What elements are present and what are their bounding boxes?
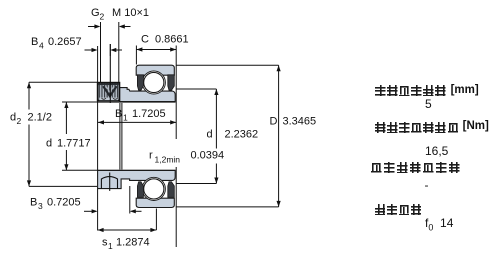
label M 10x1: [112, 7, 149, 19]
raceway gap bottom (white arc around ball): [142, 177, 165, 200]
svg-text:0.8661: 0.8661: [155, 34, 189, 46]
outer ring top section: [136, 65, 174, 75]
locking collar top (sectioned, hatched): [98, 83, 120, 101]
seal right bottom: [168, 182, 175, 198]
dimension B4 arrows: [85, 48, 123, 52]
row 3 value: dash: [425, 178, 429, 192]
svg-text:2.2362: 2.2362: [225, 129, 259, 141]
dimension D line: [176, 65, 281, 207]
extension line B4 right (screw axis above collar): [109, 44, 111, 56]
extension line G2 left: [100, 22, 102, 82]
seal right top: [168, 75, 175, 90]
dimension d2 line: [27, 82, 97, 186]
svg-text:0.0394: 0.0394: [191, 150, 225, 162]
extension line collar left face (long): [97, 46, 99, 231]
extension line right face (long): [175, 46, 177, 248]
label r12min 0.0394: [149, 150, 224, 165]
dimension s1 line: [98, 209, 157, 233]
raceway gap top (white arc around ball): [142, 71, 165, 94]
svg-text:0.7205: 0.7205: [47, 197, 81, 209]
svg-text:2.1/2: 2.1/2: [28, 112, 52, 124]
row 1 title: hex key size [mm]: [375, 85, 479, 103]
svg-text:1: 1: [108, 241, 113, 251]
label G2: [91, 7, 105, 22]
svg-text:2: 2: [100, 12, 105, 22]
row 1 value: 5: [425, 97, 432, 111]
grub screw outline bottom: [101, 173, 117, 191]
row 2 value: 16,5: [425, 144, 448, 158]
outer ring bottom section: [136, 198, 174, 207]
extension line G2 right / M thread: [118, 22, 120, 82]
svg-text:d: d: [46, 138, 52, 150]
grub screw axis top: [109, 44, 111, 103]
row 2 title: recommended tightening torque [Nm]: [375, 122, 489, 140]
label d2 2.1/2: [10, 112, 52, 127]
svg-text:4: 4: [39, 41, 44, 51]
svg-text:3.3465: 3.3465: [283, 116, 317, 128]
dimension d line: [62, 102, 98, 170]
label B4 0.2657: [31, 36, 82, 51]
svg-text:D: D: [270, 116, 278, 128]
svg-text:1: 1: [123, 113, 128, 123]
row 4 title: calculation factor: [375, 204, 423, 222]
row 3 title: suitable rubber seating ring: [371, 162, 462, 180]
svg-text:B: B: [115, 108, 122, 120]
row 4 value: f0 14: [425, 216, 453, 232]
ball top: [144, 72, 164, 92]
extension line C left: [135, 46, 137, 65]
svg-text:d: d: [10, 112, 16, 124]
label C 0.8661: [141, 34, 189, 46]
svg-text:G: G: [91, 7, 100, 19]
svg-text:1.7717: 1.7717: [57, 138, 91, 150]
svg-text:r: r: [149, 150, 153, 162]
extension lines collar right faces through gap: [120, 103, 122, 170]
ball bottom: [144, 179, 164, 199]
dimension B1 line: [98, 120, 176, 124]
label s1 1.2874: [102, 237, 150, 252]
label di 2.2362: [207, 129, 259, 141]
svg-text:3: 3: [38, 201, 43, 211]
inner ring top sleeve: [120, 88, 176, 102]
dimension G2 arrows: [88, 24, 131, 28]
inner ring bottom sleeve and collar: [98, 170, 176, 188]
svg-text:1,2min: 1,2min: [155, 155, 181, 165]
seal left top: [137, 75, 143, 90]
svg-text:B: B: [31, 36, 38, 48]
svg-text:B: B: [30, 197, 37, 209]
dimension C line: [136, 47, 176, 51]
dimension B3 arrows: [84, 209, 142, 213]
svg-text:0.2657: 0.2657: [48, 36, 82, 48]
bore line top: [98, 101, 176, 103]
svg-text:M 10×1: M 10×1: [112, 7, 149, 19]
label D 3.3465: [270, 116, 317, 128]
svg-text:2: 2: [17, 116, 22, 126]
bore line bottom: [98, 169, 176, 171]
label B3 0.7205: [30, 197, 81, 212]
label d 1.7717: [46, 138, 91, 150]
seal left bottom: [137, 182, 143, 198]
extension line B3 step: [129, 186, 131, 214]
dimension di line: [176, 89, 218, 184]
svg-text:1.7205: 1.7205: [132, 108, 166, 120]
label B1 1.7205: [115, 108, 166, 123]
svg-text:1.2874: 1.2874: [116, 237, 150, 249]
svg-text:d: d: [207, 129, 213, 141]
svg-text:C: C: [141, 34, 149, 46]
